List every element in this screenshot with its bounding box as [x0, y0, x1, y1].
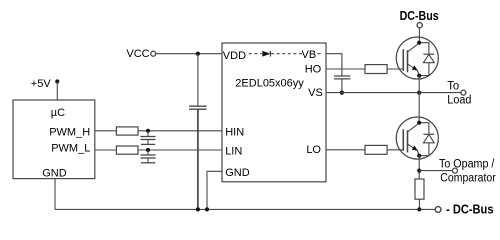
svg-text:Load: Load: [447, 94, 471, 106]
wire rail to -DC-Bus terminal: [419, 208, 435, 210]
svg-text:GND: GND: [225, 167, 250, 179]
svg-text:HO: HO: [305, 63, 322, 75]
wire R2 to LIN: [138, 149, 222, 151]
terminal circle -DC-Bus: [435, 207, 441, 213]
capacitor C2 (HIN filter): [141, 131, 156, 145]
transistor Q2 (low side IGBT with diode): [396, 117, 438, 159]
wire LO to gate resistor R4: [326, 149, 365, 151]
resistor R3: [365, 65, 387, 74]
wire to opamp terminal: [419, 170, 452, 172]
svg-text:HIN: HIN: [225, 126, 244, 138]
wire PWM_L to R2: [95, 149, 117, 151]
wire VCC to VDD: [156, 53, 222, 55]
svg-text:PWM_H: PWM_H: [49, 127, 90, 139]
wire VS pin to half-bridge node: [326, 92, 419, 94]
terminal circle To Load: [461, 90, 466, 95]
wire Q2 emitter down: [418, 156, 420, 179]
bootstrap dashed link VDD to VB: [249, 53, 321, 55]
junction dot VCC node: [196, 52, 200, 56]
junction dot LIN node: [146, 148, 150, 152]
svg-text:- DC-Bus: - DC-Bus: [446, 203, 493, 217]
capacitor C4 (bootstrap): [334, 76, 351, 79]
junction dot C1 ground: [196, 207, 200, 211]
wire DC-Bus to Q1 collector: [418, 28, 420, 43]
junction dot rail/shunt: [417, 207, 421, 211]
svg-text:VS: VS: [308, 87, 323, 99]
svg-text:Comparator: Comparator: [440, 173, 496, 185]
resistor R5 shunt: [415, 179, 424, 199]
wire HO to gate resistor R3: [326, 68, 365, 70]
junction dot C4/VS: [340, 91, 344, 95]
svg-text:DC-Bus: DC-Bus: [400, 9, 439, 23]
svg-text:µC: µC: [51, 107, 65, 119]
svg-text:VDD: VDD: [223, 50, 246, 62]
svg-text:VB: VB: [302, 49, 317, 61]
+5V terminal dot: [55, 79, 59, 83]
gate driver U1 box 2EDL05x06yy: [222, 43, 326, 182]
svg-text:To: To: [447, 81, 459, 93]
svg-text:LO: LO: [306, 144, 321, 156]
wire VCC node down to capacitor C1: [197, 54, 199, 106]
wire R4 to Q2 gate: [387, 149, 403, 151]
DC-Bus terminal circle: [417, 23, 422, 28]
junction dot VS node: [417, 91, 421, 95]
wire +5V to µC: [56, 82, 58, 101]
wire U1 GND to rail: [207, 171, 222, 209]
resistor R1: [116, 127, 138, 135]
svg-text:GND: GND: [42, 168, 66, 180]
wire µC GND down: [54, 179, 56, 210]
transistor Q1 (high side IGBT with diode): [396, 37, 438, 79]
svg-text:LIN: LIN: [225, 145, 242, 157]
wire to load: [419, 92, 461, 94]
resistor R4: [365, 145, 387, 154]
wire R3 to Q1 gate: [387, 68, 403, 70]
capacitor C1 (VDD decoupling): [189, 106, 207, 109]
svg-text:+5V: +5V: [31, 78, 52, 90]
wire R5 to rail: [418, 199, 420, 209]
junction dot shunt tap: [417, 169, 421, 173]
bootstrap diode D1: [262, 51, 270, 57]
wire VB pin to bootstrap cap: [326, 54, 342, 76]
terminal circle To Opamp: [453, 168, 458, 173]
VCC terminal circle: [151, 51, 156, 56]
junction dot U1 GND: [205, 207, 209, 211]
wire R1 to HIN: [138, 130, 222, 132]
svg-text:To Opamp /: To Opamp /: [439, 159, 495, 171]
wire Q1 emitter to Q2 collector: [418, 76, 420, 123]
label To Opamp / Comparator: [439, 159, 496, 185]
wire C1 to ground rail: [197, 109, 199, 209]
wire ground rail: [55, 208, 419, 210]
svg-text:PWM_L: PWM_L: [51, 143, 90, 155]
label To Load: [447, 81, 471, 107]
junction dot HIN node: [146, 129, 150, 133]
svg-text:VCC: VCC: [126, 48, 149, 60]
wire PWM_H to R1: [95, 130, 117, 132]
microcontroller U2 box: [13, 100, 95, 179]
wire C4 to VS: [341, 79, 343, 93]
resistor R2: [116, 146, 138, 154]
capacitor C3 (LIN filter): [141, 150, 156, 163]
svg-text:2EDL05x06yy: 2EDL05x06yy: [235, 78, 304, 90]
